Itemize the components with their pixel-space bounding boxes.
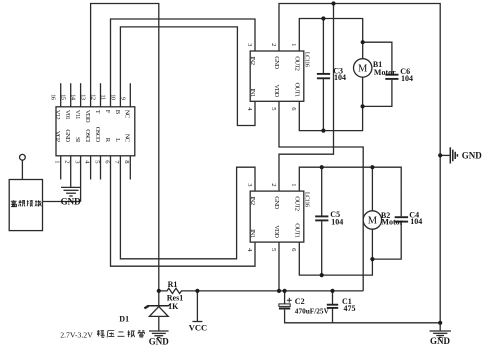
svg-text:M: M — [368, 216, 378, 227]
svg-text:SI: SI — [74, 137, 81, 142]
svg-text:OSCI: OSCI — [84, 129, 91, 142]
svg-text:GND: GND — [462, 151, 483, 161]
svg-text:Motor: Motor — [381, 218, 403, 227]
svg-text:V01: V01 — [64, 110, 71, 120]
svg-text:M: M — [358, 64, 368, 75]
svg-text:C2: C2 — [295, 297, 305, 306]
svg-text:GND: GND — [273, 196, 280, 209]
svg-text:1: 1 — [290, 183, 297, 186]
svg-text:V12: V12 — [54, 110, 61, 120]
svg-text:LC116: LC116 — [304, 192, 311, 208]
svg-text:104: 104 — [331, 217, 343, 226]
svg-text:IN1: IN1 — [249, 88, 256, 97]
svg-text:VDD: VDD — [273, 84, 280, 97]
svg-text:104: 104 — [334, 73, 346, 82]
svg-text:2: 2 — [64, 160, 71, 163]
svg-text:11: 11 — [100, 94, 107, 99]
svg-text:GND: GND — [430, 336, 451, 346]
svg-text:Motor: Motor — [374, 68, 396, 77]
svg-text:VDD: VDD — [273, 225, 280, 238]
svg-text:OUT1: OUT1 — [293, 82, 300, 96]
svg-text:VO2: VO2 — [54, 131, 61, 142]
svg-text:GND: GND — [273, 56, 280, 69]
svg-text:GND: GND — [149, 337, 170, 347]
svg-text:OSCO: OSCO — [94, 127, 101, 143]
svg-text:IN2: IN2 — [249, 196, 256, 205]
svg-text:1: 1 — [54, 160, 61, 163]
svg-text:2: 2 — [270, 183, 277, 186]
svg-text:1K: 1K — [168, 302, 179, 311]
svg-text:NC: NC — [124, 134, 131, 143]
svg-text:LC116: LC116 — [304, 52, 311, 68]
svg-text:1: 1 — [290, 43, 297, 46]
svg-text:IN2: IN2 — [249, 56, 256, 65]
svg-text:GND: GND — [64, 129, 71, 142]
svg-text:VCC: VCC — [189, 322, 207, 332]
svg-text:475: 475 — [344, 304, 356, 313]
svg-text:OUT1: OUT1 — [293, 223, 300, 237]
svg-text:R1: R1 — [168, 280, 178, 289]
svg-text:2.7V-3.2V: 2.7V-3.2V — [60, 330, 93, 339]
svg-text:GND: GND — [61, 196, 82, 206]
svg-text:V11: V11 — [74, 110, 81, 119]
svg-text:OUT2: OUT2 — [293, 196, 300, 210]
svg-text:12: 12 — [90, 94, 97, 100]
svg-text:2: 2 — [270, 43, 277, 46]
svg-text:104: 104 — [401, 74, 413, 83]
svg-text:IN1: IN1 — [249, 229, 256, 238]
svg-text:104: 104 — [410, 217, 422, 226]
svg-text:D1: D1 — [119, 314, 129, 323]
svg-text:OUT2: OUT2 — [293, 56, 300, 70]
svg-text:VDD: VDD — [84, 110, 91, 123]
svg-text:NC: NC — [124, 110, 131, 119]
svg-text:470uF/25V: 470uF/25V — [295, 306, 330, 315]
